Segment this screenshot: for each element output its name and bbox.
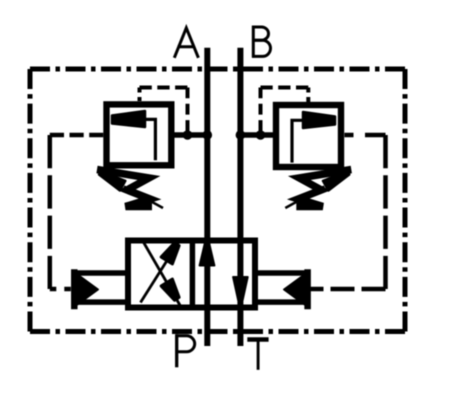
- relief valve RV1 internal arrow: [143, 119, 155, 160]
- node B label: [252, 26, 271, 58]
- junction dot on line A: [203, 130, 213, 140]
- solenoid S1 (left) box: [74, 273, 128, 302]
- directional valve V1 position divider: [190, 241, 196, 308]
- node P label: [176, 334, 195, 367]
- junction dot on line B: [236, 130, 246, 140]
- solenoid S2 triangle: [284, 275, 305, 305]
- V1 right position down arrow on line B: [233, 277, 248, 300]
- V1 right position up arrow on line A: [200, 243, 215, 266]
- V1 left position crossed arrow 1 (up-right): [141, 240, 181, 303]
- wire line B (vertical B-T line): [237, 48, 243, 346]
- solenoid S2 end bar: [304, 269, 311, 309]
- V1 left position crossed arrow 2 (down-right): [143, 241, 182, 308]
- drain line RV2 (dashed, right port to right solenoid): [310, 135, 386, 289]
- relief valve RV1 spring: [97, 170, 152, 207]
- wire from RV1 right port to line A: [171, 132, 207, 138]
- relief valve RV2 body: [276, 105, 341, 167]
- pilot line RV1 (dashed, box top to junction): [140, 88, 188, 131]
- junction dot on pilot RV1: [183, 130, 193, 140]
- wire line A (vertical A-P line): [204, 48, 210, 346]
- junction dot on pilot RV2: [256, 130, 266, 140]
- relief valve RV1 adjustment arrow: [124, 187, 163, 209]
- solenoid S1 triangle: [78, 275, 99, 305]
- node T label: [247, 340, 268, 370]
- relief valve RV2 internal arrow: [292, 120, 305, 162]
- relief valve RV2 spring: [296, 170, 351, 207]
- relief valve RV2 adjustment arrow: [285, 187, 324, 209]
- node A label: [174, 28, 198, 58]
- pilot line RV2 (dashed, box top to junction): [261, 88, 309, 131]
- relief valve RV1 body: [107, 104, 172, 165]
- wire from line B to RV2 left port: [240, 132, 276, 138]
- solenoid S2 (right) box: [255, 273, 308, 302]
- directional valve V1 body: [128, 241, 255, 308]
- solenoid S1 end bar: [71, 269, 78, 309]
- enclosure border (dash-dot frame): [30, 69, 405, 332]
- drain line RV1 (dashed, left port to left solenoid): [50, 135, 104, 289]
